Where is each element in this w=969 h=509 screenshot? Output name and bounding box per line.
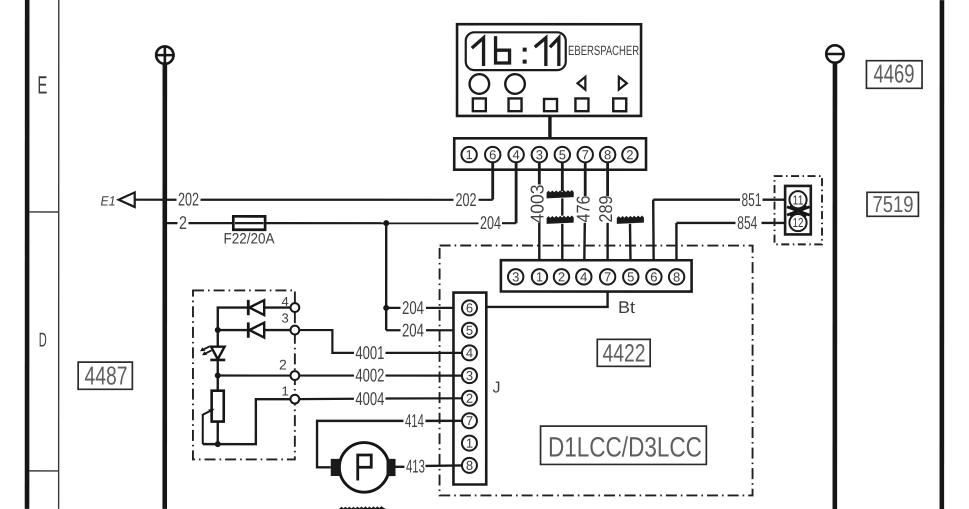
frame left rail line: [58, 0, 60, 509]
node 4 circle: [290, 303, 299, 312]
wire 204 to J5: [386, 329, 462, 331]
resistor tap arrow: [203, 410, 213, 444]
svg-text:4002: 4002: [355, 365, 384, 386]
svg-text:F22/20A: F22/20A: [224, 230, 275, 247]
connector strip Bt body: [501, 260, 692, 291]
wire 2 / 204 feed: [167, 222, 516, 224]
connector X boundary (dash-dot): [775, 176, 823, 244]
svg-text:204: 204: [402, 297, 424, 318]
connector X body: [785, 186, 811, 235]
svg-text:J: J: [492, 380, 500, 397]
svg-text:7: 7: [582, 147, 589, 162]
svg-text:D: D: [39, 329, 47, 351]
svg-text:2: 2: [279, 356, 287, 372]
svg-text:4: 4: [580, 269, 587, 284]
fuse F22/20A: [233, 216, 265, 229]
svg-text:204: 204: [402, 319, 424, 340]
svg-text:8: 8: [466, 458, 473, 473]
wire resistor bottom: [217, 422, 219, 445]
pump flag symbol: [358, 455, 372, 481]
wire timer to connector B: [548, 116, 551, 139]
svg-text:E: E: [37, 71, 47, 99]
svg-text:D1LCC/D3LCC: D1LCC/D3LCC: [548, 432, 702, 463]
junction dot 204 branch: [383, 305, 389, 311]
svg-text:204: 204: [480, 212, 501, 233]
diode V1: [249, 300, 264, 315]
svg-text:4003: 4003: [527, 185, 548, 224]
minus supply line: [833, 63, 838, 509]
wire LED to node 2 row: [217, 360, 219, 391]
wire 289 (B8 to Bt7): [606, 223, 608, 269]
wire 476 (B7 to Bt4): [583, 223, 586, 269]
svg-text:6: 6: [466, 300, 473, 315]
wire 4004 node1 to J2: [299, 397, 462, 400]
timer unit P body: [457, 24, 641, 116]
svg-text:4422: 4422: [602, 340, 645, 368]
frame left thick bar: [25, 0, 30, 509]
junction dot node2 row: [215, 373, 221, 379]
svg-text:Bt: Bt: [618, 298, 635, 317]
wire bottom return to node 1: [203, 399, 291, 444]
svg-text:4: 4: [281, 294, 288, 309]
connector B pin circles: [461, 147, 637, 162]
diode V2: [249, 323, 264, 338]
wire 4001 node3 to J4: [299, 330, 462, 353]
connector Bt pin circles: [508, 269, 684, 284]
timer key 3: [544, 99, 557, 111]
svg-text:4: 4: [513, 147, 520, 162]
svg-text:7: 7: [466, 413, 473, 428]
timer key 4: [575, 98, 588, 111]
timer arrow left: [578, 77, 586, 90]
svg-text:4469: 4469: [874, 59, 915, 89]
svg-text:6: 6: [489, 147, 496, 162]
svg-text:11: 11: [793, 192, 804, 207]
timer knob button 2: [505, 74, 525, 94]
wire Bt7 to J6: [477, 292, 607, 307]
wire B5 to Bt2: [561, 198, 563, 269]
connector B pin numbers: [466, 147, 634, 162]
connector strip B body: [454, 138, 646, 169]
wire 4003 (B3 to Bt1): [538, 223, 540, 269]
svg-text:1: 1: [281, 383, 288, 398]
connector J pin numbers: [466, 300, 473, 473]
wire Bt5 stub: [629, 224, 632, 269]
wire 204 to J6: [386, 307, 462, 309]
plus supply line: [162, 64, 167, 509]
metering pump Y wires 414: [317, 421, 462, 468]
heater unit boundary (dash-dot box): [440, 245, 753, 495]
type box D1LCC/D3LCC: [541, 426, 707, 464]
wire 204 feed vertical: [385, 223, 387, 330]
junction dot diode V2: [215, 327, 221, 333]
svg-text:202: 202: [178, 189, 199, 210]
twisted sleeve upper on B5 wire: [547, 190, 574, 198]
node 3 circle: [290, 326, 299, 335]
timer arrow right: [619, 77, 627, 90]
svg-text:4: 4: [466, 345, 473, 360]
junction dot resistor bottom: [215, 441, 221, 447]
section tick E/D: [29, 211, 58, 212]
twisted sleeve on Bt5 wire: [617, 216, 644, 224]
timer key 2: [509, 98, 522, 111]
connector X pin 11: [789, 191, 806, 208]
connector X pin 12: [789, 214, 806, 231]
svg-text:1: 1: [466, 436, 473, 451]
svg-text:854: 854: [737, 212, 757, 233]
connector B pin stubs: [493, 162, 608, 223]
terminal E1 arrow: [119, 192, 135, 207]
svg-text:2: 2: [179, 212, 187, 233]
node 2 circle: [290, 371, 299, 380]
svg-text:3: 3: [466, 368, 473, 383]
metering pump Y body: [339, 443, 389, 493]
svg-text:7: 7: [604, 269, 611, 284]
diode V1 wires: [218, 308, 291, 347]
pump terminal right: [387, 459, 396, 476]
svg-text:2: 2: [626, 147, 633, 162]
svg-text:2: 2: [466, 391, 473, 406]
junction dot at 204 feed: [383, 220, 389, 226]
svg-text:413: 413: [406, 455, 425, 476]
svg-text:8: 8: [604, 147, 611, 162]
wire 854: [676, 223, 789, 269]
svg-text:7519: 7519: [873, 191, 914, 217]
connector Bt pin numbers: [512, 269, 680, 284]
svg-text:EBERSPACHER: EBERSPACHER: [568, 43, 639, 58]
svg-text:289: 289: [595, 196, 616, 223]
svg-text:8: 8: [673, 269, 680, 284]
svg-text:12: 12: [793, 215, 804, 230]
bottom twisted sleeve (cut off): [339, 506, 386, 509]
wire 851: [653, 200, 789, 270]
svg-text:414: 414: [405, 410, 424, 431]
svg-text:6: 6: [650, 269, 657, 284]
svg-text:1: 1: [466, 147, 473, 162]
svg-text:202: 202: [456, 189, 477, 210]
timer digits 1b:11: [473, 38, 559, 65]
timer key 5: [613, 98, 626, 111]
svg-text:2: 2: [558, 269, 565, 284]
svg-text:3: 3: [536, 147, 543, 162]
LED H: [211, 347, 225, 360]
reference box 4469: [866, 61, 922, 89]
svg-text:4004: 4004: [355, 388, 384, 409]
svg-text:476: 476: [573, 196, 594, 223]
svg-text:5: 5: [559, 147, 566, 162]
reference box 7519: [867, 192, 918, 216]
timer display window: [466, 32, 566, 70]
twisted cross in connector X: [787, 206, 810, 216]
node 1 circle: [290, 395, 299, 404]
diode V2 wires: [218, 329, 291, 331]
timer key 1: [473, 98, 486, 111]
frame right thick bar: [940, 0, 945, 509]
svg-text:4487: 4487: [84, 360, 127, 390]
wire 202: [135, 199, 493, 201]
svg-text:1: 1: [536, 269, 543, 284]
svg-text:3: 3: [281, 310, 288, 325]
svg-text:5: 5: [627, 269, 634, 284]
battery minus terminal: [826, 45, 843, 62]
svg-text:3: 3: [512, 269, 519, 284]
metering pump Y wires 413: [395, 465, 462, 466]
pump terminal left: [331, 459, 340, 476]
connector strip J body: [453, 293, 486, 485]
LED emission arrows: [200, 346, 212, 355]
reference box 4487: [78, 362, 132, 389]
connector J pin circles: [462, 300, 477, 473]
timer knob button 1: [470, 74, 490, 94]
resistor R: [212, 391, 224, 422]
section tick D/C: [29, 470, 58, 471]
svg-text:4001: 4001: [355, 342, 384, 363]
twisted sleeve lower on B5 wire: [547, 216, 574, 224]
svg-text:851: 851: [742, 189, 762, 210]
svg-text:5: 5: [466, 323, 473, 338]
battery plus terminal: [155, 45, 175, 65]
wire 4002 node2 to J3: [218, 374, 462, 376]
reference box 4422: [597, 339, 650, 366]
svg-text:E1: E1: [101, 193, 116, 208]
diagnostic unit boundary (dash-dot box): [193, 290, 295, 459]
